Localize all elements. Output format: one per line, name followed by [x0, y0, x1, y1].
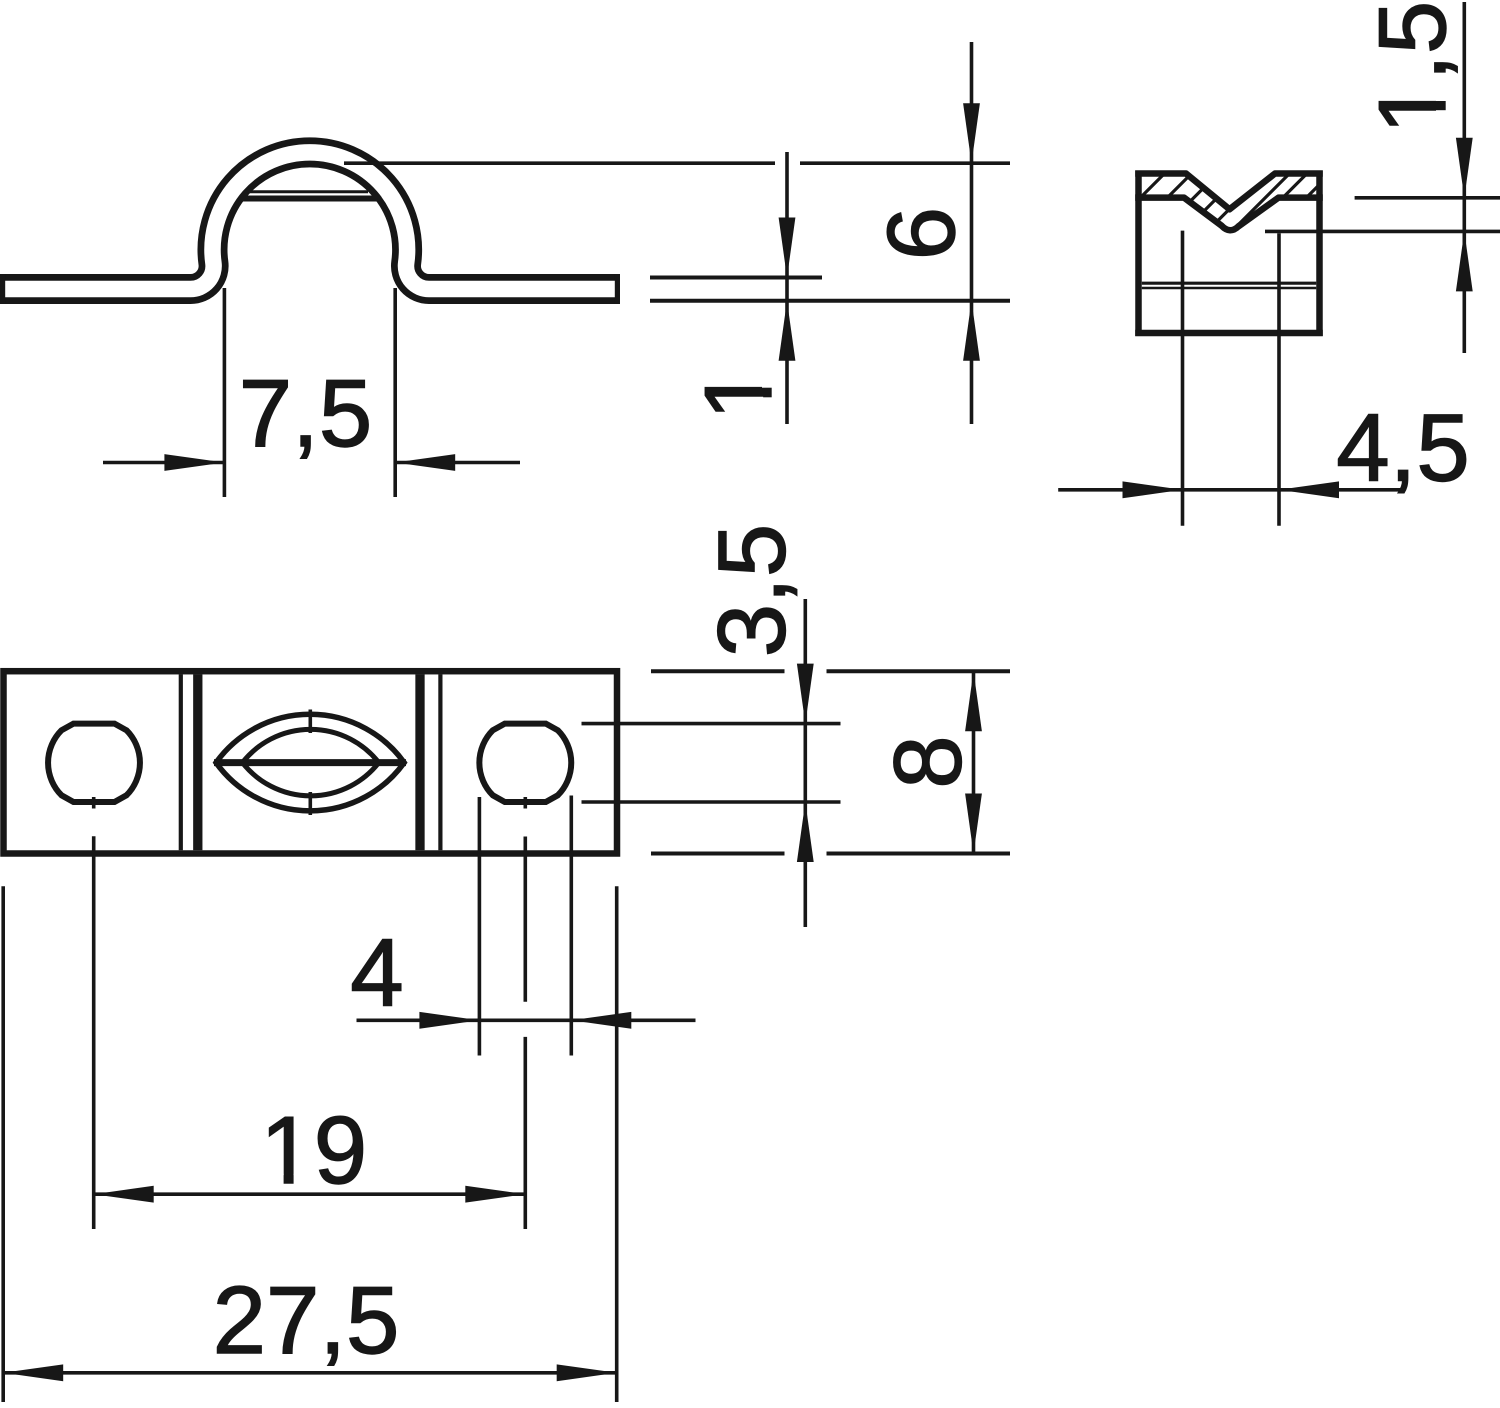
svg-text:27,5: 27,5 [213, 1267, 400, 1374]
svg-text:6: 6 [868, 207, 975, 260]
svg-text:1: 1 [685, 367, 792, 420]
svg-text:7,5: 7,5 [239, 360, 372, 467]
svg-text:4,5: 4,5 [1336, 394, 1469, 501]
svg-text:1,5: 1,5 [1359, 1, 1466, 134]
svg-text:19: 19 [260, 1097, 367, 1204]
svg-text:8: 8 [875, 735, 982, 788]
svg-text:4: 4 [350, 920, 403, 1027]
svg-text:3,5: 3,5 [699, 524, 806, 657]
